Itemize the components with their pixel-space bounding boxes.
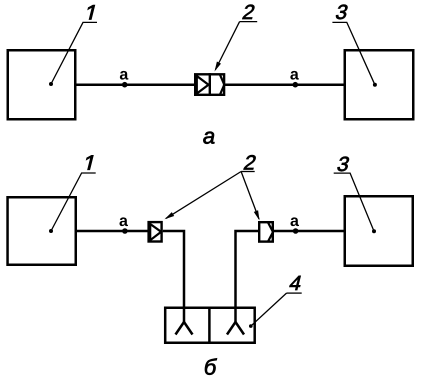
wire: corner to socket connector (bottom) (236, 231, 259, 322)
leader line for label 4 (251, 293, 287, 326)
leader end dot inside item 4 (249, 324, 253, 328)
leader shelf for label 2 (top) (240, 21, 258, 23)
arrowhead to socket connector (bottom) (254, 210, 260, 220)
pin triangle (bottom left connector) (150, 224, 161, 240)
svg-text:a: a (290, 67, 299, 84)
svg-text:a: a (290, 213, 299, 230)
block 1 (top device box) (8, 50, 76, 119)
connector divider (top) (209, 73, 211, 96)
leader shelf for label 4 (287, 292, 302, 294)
leader end dot inside block 3 (bottom) (372, 229, 376, 233)
pin connector half (bottom left, item 2): housing (149, 222, 162, 241)
wire: socket connector to block 3 (bottom) (274, 230, 344, 233)
block 3 (top device box) (345, 50, 414, 119)
socket fork (right half of item 4) (227, 322, 244, 335)
socket chevron (bottom right connector) (268, 223, 273, 242)
leader line for label 1 (top) (51, 22, 97, 84)
node a junction dot (top left) (122, 82, 128, 88)
arrowhead to pin connector (bottom) (165, 212, 175, 219)
connector U (top, item 2): housing (195, 74, 224, 95)
wire: connector to block 3 (top) (225, 83, 345, 86)
leader arrow line to socket connector (bottom) (241, 172, 259, 220)
leader end dot inside block 1 (top) (49, 82, 53, 86)
connector socket chevron (top) (220, 74, 225, 95)
svg-text:a: a (119, 213, 128, 230)
block 1 (bottom device box) (8, 197, 76, 265)
wire: block 1 to connector (top) (77, 83, 196, 86)
socket fork (left half of item 4) (176, 322, 193, 335)
splitter box (item 4) (165, 308, 255, 343)
leader line for label 1 (bottom) (51, 173, 96, 231)
label 1 (top) (86, 5, 95, 19)
leader arrow line for label 2 (top) (216, 22, 240, 70)
node a junction dot (top right) (293, 82, 299, 88)
node a junction dot (bottom right) (293, 228, 299, 234)
leader shelf for label 2 (bottom) (241, 171, 255, 173)
arrowhead for label 2 (top) (215, 62, 222, 72)
svg-text:а: а (203, 124, 215, 149)
svg-text:б: б (204, 355, 218, 380)
node a junction dot (bottom left) (122, 228, 128, 234)
leader end dot inside block 3 (top) (373, 83, 377, 87)
block 3 (bottom device box) (345, 196, 413, 266)
leader arrow line to pin connector (bottom) (166, 172, 241, 219)
connector pin triangle (top) (197, 76, 209, 94)
splitter box divider (208, 307, 211, 345)
svg-text:a: a (119, 67, 128, 84)
wire: block 1 to pin connector (bottom) (77, 230, 149, 233)
wire: pin connector right to corner (bottom) (163, 231, 184, 322)
leader line for label 3 (bottom) (334, 173, 374, 231)
leader line for label 3 (top) (332, 22, 375, 84)
socket connector half (bottom right, item 2): housing (259, 222, 273, 241)
leader end dot inside block 1 (bottom) (49, 229, 53, 233)
label 1 (bottom) (84, 156, 93, 170)
